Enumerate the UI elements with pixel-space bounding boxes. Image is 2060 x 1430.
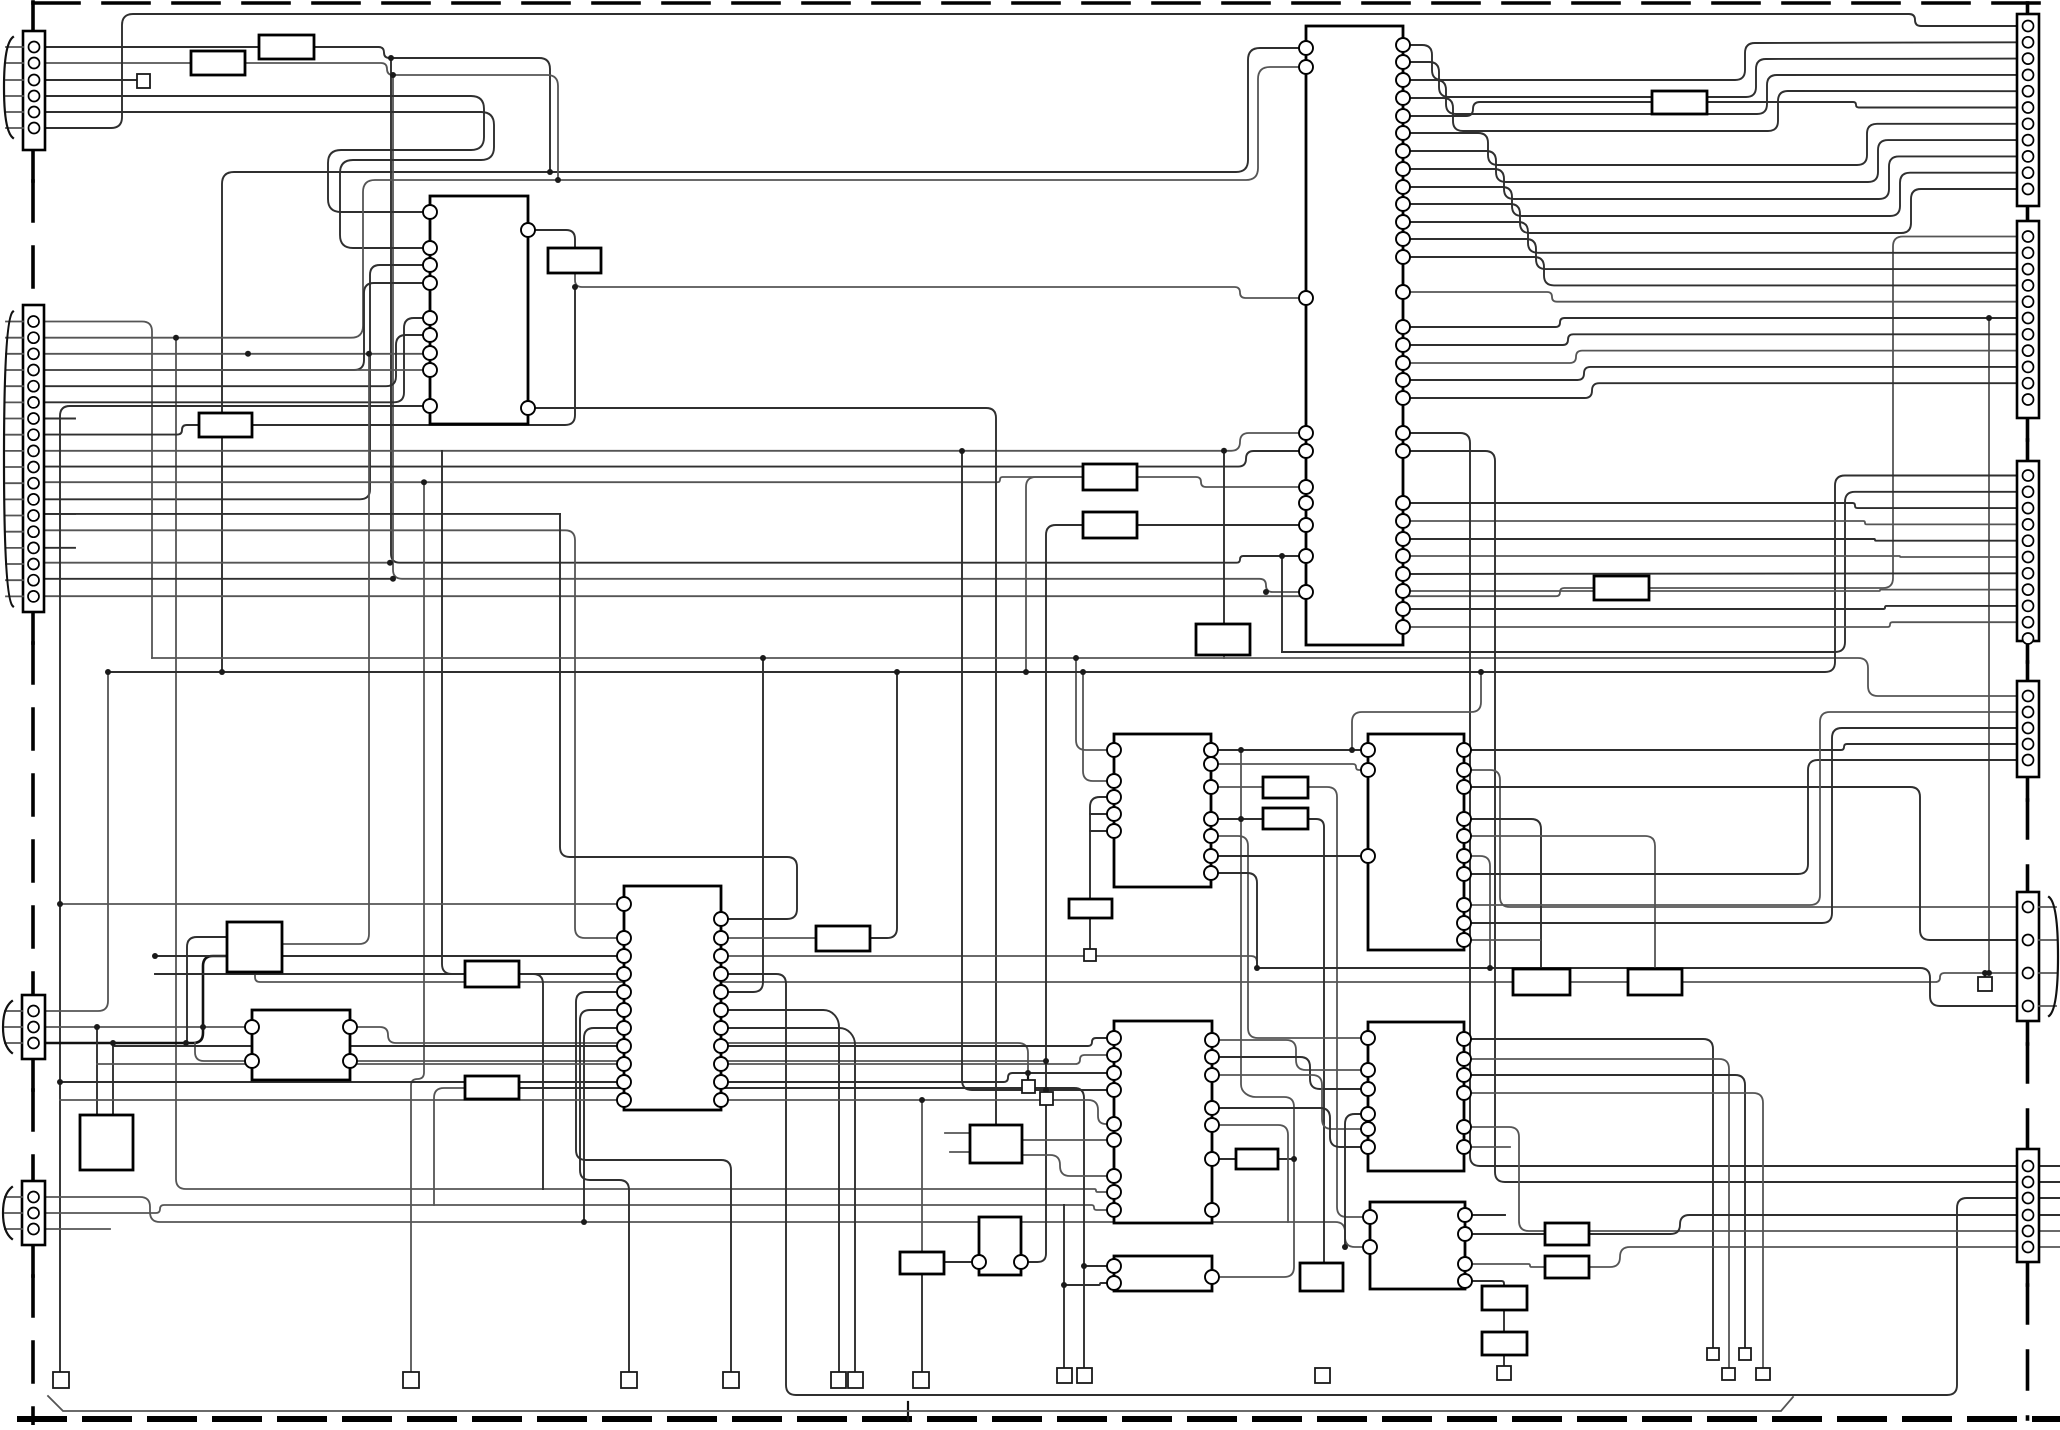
wire L2p14-IC3p938 [44, 530, 624, 938]
node j8 [183, 1040, 189, 1046]
node j32 [1073, 655, 1079, 661]
wire R6thru1166 [2038, 1165, 2060, 1167]
node j26 [388, 55, 394, 61]
wire IC5L814 [1090, 813, 1114, 815]
wire Rm-IC9p1217 [1308, 787, 1370, 1217]
IC U9 [1107, 1256, 1219, 1291]
wire IC6r836-Rq [1464, 836, 1655, 969]
wire x393-IC2p592 [393, 75, 1306, 592]
wire IC2r363-R2 [1403, 351, 2017, 363]
connector X5 (R1) [2017, 14, 2039, 206]
resistor R3 [548, 248, 601, 273]
wire L3p1-x108 [45, 672, 108, 1011]
wire IC6r750-R4p4 [1464, 744, 2017, 750]
IC U10 [1363, 1202, 1472, 1289]
wire IC9r1215stub [1465, 1214, 1505, 1216]
wire L2p16-j [44, 562, 390, 564]
resistor R24 [900, 1252, 944, 1274]
wire Rp-Rq [1570, 981, 1628, 983]
wire L2p4b-IC1p370 [44, 369, 430, 371]
resistor R23 [1300, 1263, 1343, 1291]
wire L2p1-runA [44, 322, 152, 659]
wire Ri-top [1223, 452, 1225, 624]
terminal E9 [1057, 1368, 1072, 1383]
wire L2p9-IC2p433 [44, 433, 1306, 451]
wire x176-y1189-IC7 [176, 338, 1114, 1192]
wire IC2r574-R3 [1403, 572, 2017, 575]
resistor R19 [1545, 1223, 1589, 1245]
wire IC7r1075-IC6b1129 [1212, 1075, 1368, 1129]
wire IC2r257-R2 [1403, 257, 2017, 285]
wire Rq-R5p3 [1682, 973, 2017, 982]
wire R6thru1231 [2038, 1230, 2060, 1232]
wire runB672 [108, 476, 2017, 673]
wire IC2r80-R1 [1403, 75, 2017, 114]
IC B1 [970, 1125, 1022, 1163]
wire Rg-right [1137, 477, 1306, 487]
wire x1064-T9 [1063, 1205, 1065, 1368]
wire IC2r98-R1 [1403, 91, 2017, 131]
wire IC3R992-up [721, 658, 763, 992]
wire IC2r521-R3 [1403, 521, 2017, 524]
wire IC5r873-y968 [1211, 873, 1257, 968]
wire IC3R1082-y1073 [721, 1073, 1114, 1082]
node j27 [390, 72, 396, 78]
node j36 [366, 351, 372, 357]
node j45 [1986, 970, 1992, 976]
node j3 [1238, 747, 1244, 753]
terminal E10 [1077, 1368, 1092, 1383]
terminal E6 [831, 1372, 846, 1388]
node j21 [1342, 1244, 1348, 1250]
wire IC3L974 [155, 973, 624, 975]
node j28 [421, 479, 427, 485]
node j37 [245, 351, 251, 357]
connector X3 (L3) [3, 995, 45, 1059]
wire topRun172 [222, 48, 1306, 672]
resistor R6 [1594, 576, 1649, 600]
wire IC5r764-IC6p770 [1211, 764, 1368, 770]
wire L2p2-topRun180 [44, 67, 1306, 338]
IC S2 [80, 1115, 133, 1170]
terminal E8 [913, 1372, 929, 1388]
wire L2p10-IC2p451 [44, 451, 1306, 467]
wire Rb-jog [245, 63, 558, 180]
wire IC6br1147-stub [1464, 1146, 1510, 1148]
IC U4 [245, 1010, 357, 1080]
wire IC3L1010 [580, 1010, 629, 1372]
wire Rh-left-IC10 [1029, 525, 1083, 1262]
resistor R22 [1482, 1332, 1527, 1355]
node j13 [1043, 1058, 1049, 1064]
terminal E20 [1040, 1092, 1053, 1105]
wire L4p1-IC9p1247 [45, 1197, 1370, 1247]
wire IC2r187-R1b [1403, 173, 2017, 216]
connector X7 (R3) [2017, 461, 2039, 644]
wire R6thru1247 [2038, 1246, 2060, 1248]
wire IC2r503-R3 [1403, 503, 2017, 508]
wire runA658 [152, 657, 1224, 659]
terminal E19 [1022, 1080, 1035, 1093]
wire IC1p406-T2 [60, 406, 430, 1372]
terminal E5 [723, 1372, 739, 1388]
node j12 [57, 1079, 63, 1085]
wire Rg-left [1026, 477, 1083, 672]
terminal E16 [1739, 1348, 1751, 1360]
wire R6thru1215 [2038, 1214, 2060, 1216]
wire Re-R1p6 [1707, 102, 2017, 108]
node j42 [581, 1219, 587, 1225]
wire L2p7stub [44, 418, 75, 420]
terminal E2 [53, 1372, 69, 1388]
wire y652 [1281, 651, 1283, 653]
terminal E3 [403, 1372, 419, 1388]
wire IC3R1010-T6 [721, 1010, 839, 1372]
wire IC7r1125-y1222 [1212, 1125, 1288, 1222]
wire x962 [962, 451, 1114, 1090]
resistor R5 [1652, 91, 1707, 114]
node j4 [1349, 747, 1355, 753]
wire IC3L956 [155, 955, 624, 957]
IC U5 [1107, 734, 1218, 887]
wire Rx-IC10 [944, 1261, 972, 1263]
wire T20stub [1045, 1090, 1047, 1092]
wire IC6r856-y968j [1464, 856, 1490, 968]
wire IC2r345-R2 [1403, 334, 2017, 345]
wire IC7r1108-IC6b1147 [1212, 1108, 1368, 1147]
connector X6 (R2) [2017, 221, 2039, 418]
wire IC6r940stub [1464, 939, 1540, 941]
wire x113-S2 [112, 1043, 114, 1115]
wire IC2r591-R3 [1403, 590, 2017, 591]
connector X9 (R5) [2017, 892, 2058, 1021]
wire IC2r169-R1b [1403, 156, 2017, 199]
node j10 [94, 1024, 100, 1030]
node j23 [152, 953, 158, 959]
wire IC7r1040-IC6b1070 [1212, 1040, 1368, 1070]
terminal E18 [1756, 1368, 1770, 1380]
resistor R18 [1236, 1149, 1278, 1169]
wire IC5L831 [1090, 830, 1114, 832]
resistor R10 [465, 961, 519, 987]
wire IC3R956-y968 [721, 956, 1257, 968]
wire T14stub [1984, 973, 1986, 977]
resistor R1 [259, 35, 314, 59]
wire IC2r116-Re [1403, 102, 1652, 116]
wire B1stub2 [950, 1151, 970, 1153]
wire T19stub [1027, 1073, 1029, 1080]
wire L1p5-IC1p248 [44, 112, 494, 248]
wire IC3L1082 [60, 1081, 624, 1083]
page border bottom dashed [20, 1416, 2060, 1422]
wire x424-T3 [411, 482, 424, 1372]
wire L2p6-IC1p318 [44, 318, 430, 402]
wire L4p2-IC7p1210 [45, 1205, 1114, 1213]
wire IC3L1100 [60, 1099, 624, 1101]
IC S1 [227, 922, 282, 972]
node j35 [105, 669, 111, 675]
wire IC5L797-Ro [1090, 797, 1114, 899]
node j26d [219, 669, 225, 675]
wire Rk-left [434, 1088, 465, 1205]
wire x1241 [1241, 750, 1294, 1159]
wire L1p6-topRun14 [44, 14, 2017, 128]
connector X8 (R4) [2017, 681, 2039, 777]
terminal E4 [621, 1372, 637, 1388]
node j19 [1254, 965, 1260, 971]
node j27b [390, 576, 396, 582]
node j20 [1982, 970, 1988, 976]
wire IC6r770-R5p1 [1464, 770, 2017, 907]
wire IC1p408-B1 [528, 408, 996, 1125]
wire L2p3-IC1p353 [44, 353, 430, 355]
wire IC9r1281-Ru [1465, 1281, 1504, 1286]
wire IC3R938-Rl [721, 937, 816, 939]
connector X2 (L2) [4, 305, 44, 612]
terminal E13 [1084, 949, 1096, 961]
resistor R12 [816, 926, 870, 951]
wire L1p1-Ra [44, 46, 259, 48]
wire IC6r874-R4p5 [1464, 760, 2017, 874]
node j16 [919, 1097, 925, 1103]
wire IC6br1075-T16 [1464, 1075, 1745, 1348]
wire L4p3stub [45, 1228, 110, 1230]
node j34 [760, 655, 766, 661]
wire S1r-x369 [282, 354, 369, 944]
terminal E12 [1497, 1366, 1511, 1380]
wire Ra-jog [314, 47, 550, 172]
wire IC9r1264-Rt [1465, 1264, 1545, 1267]
wire IC5r856-IC6p856 [1211, 855, 1368, 857]
wire IC2r133-R1b [1403, 124, 2017, 165]
terminal E11 [1315, 1368, 1330, 1383]
node j25 [1263, 589, 1269, 595]
wire L1p3-T1 [44, 79, 137, 81]
wire Rl-y672 [870, 672, 897, 938]
wire Rj-right [519, 974, 543, 1189]
node j11 [57, 901, 63, 907]
wire IC2r151-R1b [1403, 140, 2017, 182]
wire L2p18-Rf [44, 588, 1594, 596]
wire x1084-IC8 [1084, 1265, 1114, 1267]
wire IC3L904 [60, 903, 624, 905]
wire Rr-x1294 [1278, 1158, 1294, 1160]
wire L2p8-Rd [44, 425, 199, 435]
terminal E15 [1707, 1348, 1719, 1360]
wire Rv-T12 [1503, 1355, 1505, 1366]
resistor R13 [1263, 777, 1308, 798]
node j1 [572, 284, 578, 290]
wire IC6br1059-T17 [1464, 1059, 1729, 1368]
node j41 [1221, 448, 1227, 454]
wire IC3R1100-IC7p1124 [721, 1100, 1114, 1124]
wire IC4R1061 [350, 1060, 1046, 1062]
wire IC6loop [1352, 672, 1481, 750]
wire y968-R5p4 [1257, 968, 2017, 1006]
node j31 [1080, 669, 1086, 675]
wire IC2r539-R3 [1403, 539, 2017, 541]
wire x1294-IC8r [1212, 1159, 1294, 1277]
node j15 [1025, 1070, 1031, 1076]
wire x97-S2 [96, 1027, 98, 1115]
node j26c [547, 169, 553, 175]
wire IC6r819-Rp [1464, 819, 1541, 969]
wire B1stub [945, 1132, 970, 1134]
wire IC2r327-R2 [1403, 318, 2017, 327]
resistor R8 [1083, 512, 1137, 538]
wire runA658b [1224, 658, 2017, 696]
wire B1-IC7p1140 [1022, 1139, 1114, 1141]
IC U6 [1361, 734, 1471, 950]
resistor R17 [1628, 969, 1682, 995]
resistor R11 [465, 1076, 519, 1099]
wire IC3L1046 [113, 1045, 624, 1047]
wire L3p2-IC4p1027 [45, 1026, 252, 1028]
wire IC7r1057-IC6b1089 [1212, 1057, 1368, 1089]
page border right dashed [2026, 3, 2030, 14]
wire IC1p230-Rc [528, 230, 575, 248]
wire IC3R974-lineA [721, 974, 2017, 1395]
wire Rk-right-T10 [519, 1088, 1084, 1368]
wire y652-R3p2 [1282, 492, 2017, 652]
wire IC6r905-R4p2 [1464, 712, 2017, 905]
node j9 [110, 1040, 116, 1046]
wire IC2r433-R6p1 [1403, 433, 2017, 1166]
wire Rw-bot-T8 [921, 1274, 923, 1372]
wire IC3R1064-IC7p1055 [721, 1055, 1114, 1064]
node j30 [1023, 669, 1029, 675]
wire IC6r787-R5p2 [1464, 787, 2017, 940]
wire S1b-y982 [255, 972, 1513, 982]
page border top dashed [33, 1, 2040, 5]
wire IC6br1039-T15 [1464, 1039, 1713, 1348]
wire IC3R1046-IC7p1038 [721, 1038, 1114, 1046]
wire IC2r62-R1 [1403, 59, 2017, 97]
node j17 [1061, 1282, 1067, 1288]
IC U7 [1107, 1021, 1219, 1223]
wire IC2r45-R1 [1403, 42, 2017, 80]
node j18 [1081, 1263, 1087, 1269]
wire IC2r609-R3 [1403, 606, 2017, 609]
wire Rn-Rw [1308, 819, 1324, 1263]
wire IC3R1028-T7 [721, 1028, 855, 1372]
wire IC2r451-R6p2 [1403, 451, 2017, 1182]
wire R6thru1198 [2038, 1197, 2060, 1199]
wire IC3L1028 [584, 1028, 624, 1222]
node j5 [1238, 816, 1244, 822]
wire IC5p750feed [1076, 658, 1114, 750]
wire Ru-Rv [1503, 1310, 1505, 1332]
wire Rd-j287 [252, 287, 575, 425]
wire IC2r627-R3 [1403, 622, 2017, 627]
wire Ro-T13 [1089, 918, 1091, 949]
connector X10 (R6) [2017, 1149, 2039, 1262]
wire Rh-right [1137, 524, 1306, 526]
wire IC2r222-R2 [1403, 222, 2017, 253]
IC U11 [972, 1217, 1028, 1275]
wire IC2r292-R2 [1403, 292, 2017, 302]
IC U8 [1361, 1022, 1471, 1171]
wire IC4L1061 [195, 1043, 252, 1061]
wire L2p13stub [44, 513, 75, 515]
node j6 [1279, 553, 1285, 559]
wire B1-IC7p1176 [1022, 1155, 1114, 1176]
wire IC5r750-IC6 [1211, 749, 1368, 751]
IC U1 [423, 196, 535, 424]
wire IC5p781feed [1083, 672, 1114, 781]
resistor R2 [191, 51, 245, 75]
wire L2p11-Rg [44, 477, 1083, 482]
node j33 [894, 669, 900, 675]
wire IC5r819-Rn [1211, 818, 1263, 820]
wire IC9r1215-Rsroute [1465, 1233, 1545, 1235]
wire L1p2-Rb [44, 62, 191, 64]
node j22 [1487, 965, 1493, 971]
wire y857b [44, 513, 560, 515]
wire L3p3-S1 [45, 956, 227, 1043]
node j26b [387, 560, 393, 566]
wire L2p5-IC1p335 [44, 335, 430, 386]
wire IC2r204-R1b [1403, 189, 2017, 233]
IC U2 [1299, 26, 1410, 645]
node j29 [173, 335, 179, 341]
wire IC5r787-Rm [1211, 786, 1263, 788]
wire L2p17-j [44, 578, 393, 580]
wire harness bracket bottom [48, 1396, 1793, 1411]
resistor R7 [1083, 464, 1137, 490]
node j44 [1986, 315, 1992, 321]
terminal E14 [1978, 977, 1992, 991]
resistor R14 [1263, 808, 1308, 829]
resistor R21 [1482, 1286, 1527, 1310]
wire IC7r1159-Rr [1212, 1158, 1236, 1160]
wire Rj-left [442, 451, 465, 974]
wire Rs-R6p4 [1589, 1215, 2017, 1234]
wire fold tick [907, 1402, 909, 1421]
wire Rc-IC2p298 [575, 273, 1306, 298]
wire IC5r836-IC6bp1038 [1211, 836, 1368, 1038]
resistor R9 [1196, 624, 1250, 655]
resistor R4 [199, 413, 252, 437]
wire Rt-R6p6 [1589, 1247, 2017, 1267]
wire x1064-IC8p1283 [1064, 1283, 1114, 1285]
wire S1up-x187 [187, 937, 227, 1043]
resistor R15 [1069, 899, 1112, 918]
connector X1 (L1) [4, 31, 45, 150]
wire y857-IC3p919 [560, 514, 797, 919]
wire IC2r398-R2 [1403, 383, 2017, 398]
page border left dashed [31, 2, 35, 31]
wire L2p4-IC1p283 [44, 283, 430, 370]
terminal E7 [848, 1372, 863, 1388]
wire L2p12-IC1p265 [44, 265, 430, 499]
wire Rw-top [921, 1100, 923, 1252]
wire IC6br1127-R6p5 [1464, 1127, 2017, 1231]
wire R6thru1182 [2038, 1181, 2060, 1183]
wire x390-IC2p556 [391, 58, 1306, 563]
node j14 [1043, 1087, 1049, 1093]
connector X4 (L4) [3, 1181, 45, 1245]
wire x1989 [1988, 318, 1990, 973]
wire IC3L992 [576, 992, 731, 1372]
IC U3 [617, 886, 728, 1110]
node j24 [1291, 1156, 1297, 1162]
wire Ri-bot [1223, 655, 1225, 658]
wire IC2r556-R3 [1403, 556, 2017, 557]
terminal E17 [1722, 1368, 1735, 1380]
wire IC6br1093-T18 [1464, 1093, 1763, 1368]
resistor R20 [1545, 1256, 1589, 1278]
